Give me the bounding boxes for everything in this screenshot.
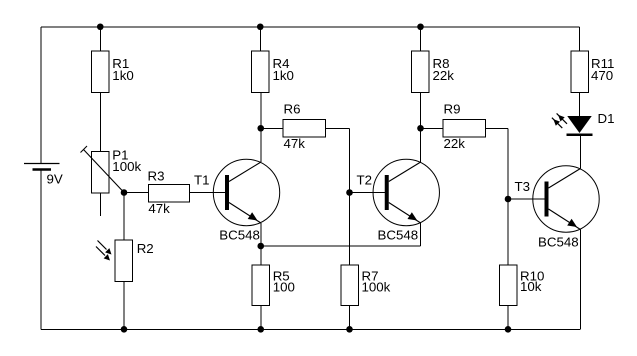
resistor R8 22k — [412, 51, 455, 93]
wire R2 to bottom rail — [123, 282, 125, 330]
wire R1 to P1 — [99, 93, 101, 152]
wire T3 emitter down to rail — [579, 229, 581, 329]
svg-text:9V: 9V — [47, 172, 63, 187]
photoresistor R2 — [96, 240, 154, 282]
wire node to R5 — [260, 246, 262, 265]
wire T2 emitter down — [420, 223, 422, 246]
node bottom rail R2 — [121, 326, 128, 333]
wire R3 to T1 base — [190, 192, 226, 194]
node top rail R8 — [417, 23, 424, 30]
potentiometer P1 100k — [81, 146, 142, 193]
node R6 tap on collector — [257, 125, 264, 132]
wire T3 collector up to D1 — [579, 136, 581, 169]
resistor R10 10k — [499, 265, 544, 306]
LED D1 — [552, 111, 615, 135]
resistor R4 1k0 — [252, 51, 294, 93]
svg-text:R6: R6 — [284, 102, 301, 117]
wire R9 right — [486, 127, 509, 129]
node top rail R1 — [97, 23, 104, 30]
svg-text:10k: 10k — [520, 279, 542, 294]
svg-text:22k: 22k — [444, 136, 466, 151]
svg-text:47k: 47k — [148, 201, 170, 216]
wire top rail — [41, 26, 580, 28]
svg-text:R9: R9 — [444, 102, 461, 117]
transistor T3 BC548 — [515, 166, 600, 250]
resistor R7 100k — [341, 265, 391, 306]
svg-text:22k: 22k — [433, 68, 455, 83]
node T3 base junction — [505, 196, 512, 203]
node T2 base junction — [346, 189, 353, 196]
svg-text:100k: 100k — [362, 280, 391, 295]
svg-text:1k0: 1k0 — [112, 68, 133, 83]
svg-text:47k: 47k — [284, 136, 306, 151]
wire R7 to bottom rail — [349, 305, 351, 329]
svg-text:BC548: BC548 — [219, 228, 260, 243]
wire T2 base node down to R7 — [349, 193, 351, 265]
svg-text:R2: R2 — [137, 241, 154, 256]
wire R6 right — [326, 127, 350, 129]
node A junction — [121, 189, 128, 196]
wire node to R6 — [261, 127, 283, 129]
resistor R11 470 — [571, 51, 615, 93]
wire R11 top to rail corner — [579, 27, 581, 51]
wire D1 top to R11 — [579, 93, 581, 117]
wire emitter tie T1-T2 — [261, 245, 421, 247]
svg-text:BC548: BC548 — [378, 228, 419, 243]
node T1 emitter junction — [257, 243, 264, 250]
wire R6 down to T2 base node — [349, 128, 351, 192]
wire R1 top — [99, 27, 101, 51]
wire T3 base node down to R10 — [507, 199, 509, 265]
wire R9 down to T3 base node — [507, 128, 509, 199]
svg-text:BC548: BC548 — [538, 235, 579, 250]
resistor R1 1k0 — [92, 51, 134, 93]
wire left side upper — [40, 27, 42, 164]
wire R10 to bottom rail — [507, 305, 509, 329]
node bottom rail R5 — [257, 326, 264, 333]
svg-text:D1: D1 — [598, 111, 615, 126]
wire T1 emitter down — [260, 223, 262, 246]
resistor R5 100 — [252, 265, 295, 306]
svg-text:100k: 100k — [112, 159, 141, 174]
wire T2 collector up — [420, 93, 422, 163]
wire T1 collector up — [260, 93, 262, 163]
resistor R6 47k — [283, 102, 326, 152]
node R9 tap on collector — [417, 125, 424, 132]
node bottom rail R10 — [505, 326, 512, 333]
wire R4 top — [259, 27, 261, 51]
svg-text:T3: T3 — [515, 179, 531, 194]
svg-text:T2: T2 — [357, 173, 373, 188]
wire T2 base — [350, 192, 386, 194]
node bottom rail R7 — [346, 326, 353, 333]
svg-text:1k0: 1k0 — [273, 68, 294, 83]
svg-text:T1: T1 — [194, 173, 210, 188]
wire bottom rail — [41, 328, 580, 330]
svg-text:100: 100 — [273, 280, 295, 295]
transistor T2 BC548 — [357, 159, 440, 242]
svg-text:R3: R3 — [148, 169, 165, 184]
resistor R3 47k — [148, 169, 190, 217]
wire left side lower — [40, 170, 42, 330]
svg-text:470: 470 — [591, 68, 613, 83]
wire P1 bottom stub — [99, 193, 101, 216]
wire node to R9 — [421, 127, 444, 129]
node top rail R4 — [257, 23, 264, 30]
wire R5 to bottom rail — [260, 305, 262, 329]
wire node A to R3 — [124, 192, 149, 194]
wire node A down to R2 — [123, 193, 125, 241]
transistor T1 BC548 — [194, 159, 280, 242]
resistor R9 22k — [443, 102, 486, 152]
battery 9V — [24, 164, 63, 187]
wire R8 top — [420, 27, 422, 51]
wire T3 base — [508, 198, 545, 200]
